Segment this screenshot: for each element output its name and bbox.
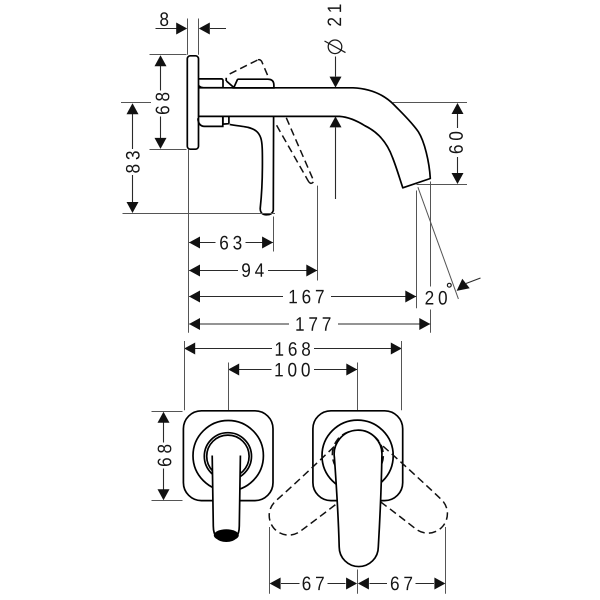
dim 83 line [132,105,134,212]
dim 68 line [160,57,162,147]
handle raised position (dashed) [230,60,269,79]
dim 83 text (rotated) [126,151,140,172]
dim dia21 line [335,57,337,200]
dim 67 texts [303,576,324,590]
dim 167 arrows [189,291,200,303]
dim 177 text [296,317,330,330]
dim 67 left line [281,583,434,585]
dim 68 text (rotated) [156,93,170,114]
dim 68 front extension lines [152,412,183,501]
handle bar (closed position, side view) [234,79,274,88]
spout tube (front) [212,456,240,542]
dim 68 extension lines [150,55,187,150]
handle swing left (dashed petal) [258,422,393,546]
handle joint diagonal [226,81,233,87]
dim 60 text (rotated) [449,132,463,153]
dim 68 front text (rotated) [158,445,172,466]
escutcheon left (spout) square [183,411,273,501]
handle swing right (dashed petal) [323,421,458,545]
dia symbol [328,40,342,54]
collar between connector and lever [223,116,229,124]
dim 8 text [160,12,168,26]
escutcheon left outer circle [193,421,263,491]
dim 168 arrows [184,343,195,355]
dim 168 text [276,342,310,356]
dim 94 arrows [189,265,200,277]
dim 8 line [156,28,227,30]
angle 20 deg slanted line [418,187,459,299]
dim 8 extension lines [188,19,199,55]
dim 8 arrows [176,23,187,35]
wall plate (side view) [187,56,198,149]
dim 100 arrows [228,364,239,376]
spout outlet (dark ellipse) [214,529,239,541]
angle 20 arrow [457,279,470,291]
dim 63 text [220,236,241,250]
dim 60 extension lines [393,103,468,185]
dim 167 text [290,290,324,304]
escutcheon right (handle) square [313,411,403,501]
dim 94 text [242,263,264,277]
lower connector [198,116,223,126]
dim 177 line [189,323,430,325]
angle 20 text [425,291,446,305]
dim 68 front arrows [158,412,170,423]
upper connector sleeve [198,79,223,88]
lever forward position (dashed) [277,118,314,184]
dim 67 arrows [270,578,281,590]
escutcheon left sleeve ring [204,433,251,480]
dim 168 line [185,348,402,350]
handle paddle (front) [334,430,382,566]
dim 177 arrows [189,318,200,330]
left reference extension line [188,149,190,333]
dim 60 arrows [452,103,464,114]
escutcheon right outer circle [322,420,393,491]
dim 63 arrows [189,237,200,249]
spout tube body [199,88,431,188]
dim 60 line [457,104,459,183]
dim 83 arrows [127,103,139,114]
dim 68 front line [163,414,165,499]
dim 94 right extension [317,186,319,281]
dim 94 line [189,270,317,272]
dim 63 line [189,242,273,244]
dim 177 right extension [430,182,432,333]
dim 167 line [189,296,416,298]
degree symbol [447,283,451,287]
dim 100 text [275,363,309,377]
dim 83 extension lines [121,103,275,214]
dim 63 right extension [273,217,275,252]
dim dia21 arrows [330,77,342,88]
handle joint tick [225,78,227,81]
dim 167 right extension [416,191,418,309]
dim 67 extension lines [270,527,446,594]
dim 100 line [229,369,358,371]
lever handle pointing down (solid) [230,116,274,215]
extension lines 168/100 [185,341,402,410]
dim 68 arrows [155,55,167,66]
dim dia21 text (rotated) [327,4,341,25]
